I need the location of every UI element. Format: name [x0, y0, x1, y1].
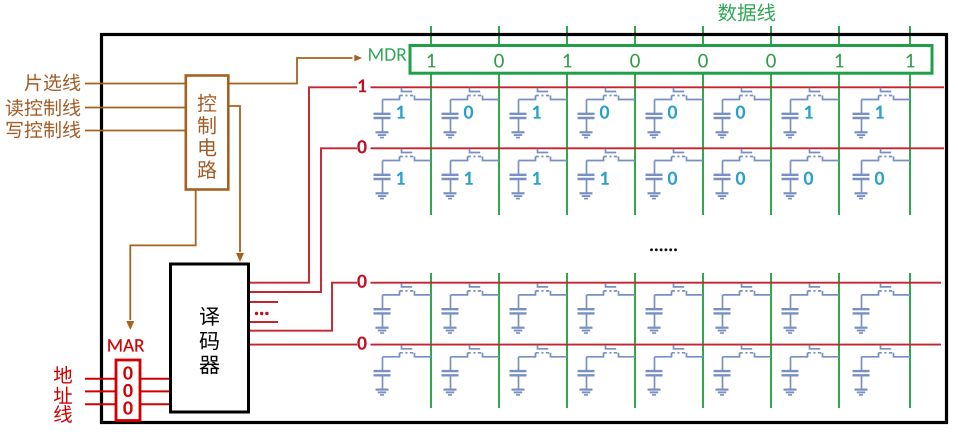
memory cell row3 col4 [578, 283, 636, 333]
stored bit = 0 [600, 105, 609, 118]
gate connection to word line [538, 283, 549, 287]
bit line / data line column 6 [770, 26, 772, 408]
ground [580, 131, 593, 133]
access transistor [723, 291, 740, 295]
word line row3 label 0 [357, 275, 366, 288]
storage capacitor [790, 161, 792, 175]
ground [855, 192, 868, 194]
access transistor [587, 291, 604, 295]
bit line / data line column 1 [430, 26, 432, 408]
gate connection to word line [742, 345, 753, 349]
access transistor [451, 96, 468, 100]
storage capacitor [450, 100, 452, 114]
ground [648, 327, 661, 329]
gate connection to word line [674, 88, 685, 92]
access transistor [587, 96, 604, 100]
decoder stub output a [249, 301, 279, 303]
memory cell row4 col4 [578, 345, 636, 395]
ground [444, 131, 457, 133]
gate connection to word line [881, 88, 892, 92]
memory cell row1 col2 = 0 [442, 88, 500, 138]
bit line / data line column 4 [634, 26, 636, 408]
storage capacitor [450, 295, 452, 309]
gate connection to word line [606, 283, 617, 287]
gate connection to word line [810, 149, 821, 153]
access transistor [451, 353, 468, 357]
label 写控制线 [6, 121, 80, 138]
ground [512, 131, 525, 133]
memory cell row3 col2 [442, 283, 500, 333]
storage capacitor [861, 295, 863, 309]
gate connection to word line [538, 88, 549, 92]
storage capacitor [790, 295, 792, 309]
storage capacitor [450, 357, 452, 371]
decoder text 译码器 [200, 307, 220, 374]
array row ellipsis …… [650, 248, 677, 251]
storage capacitor [654, 161, 656, 175]
label 地址线 (address lines) [54, 366, 72, 423]
storage capacitor [586, 295, 588, 309]
register MAR box [116, 360, 140, 421]
stored bit = 0 [804, 172, 813, 185]
chip select line (片选线) wire [85, 83, 186, 85]
ground [716, 192, 729, 194]
gate connection to word line [674, 149, 685, 153]
label 读控制线 [6, 99, 81, 117]
ground [716, 327, 729, 329]
memory cell row2 col5 = 0 [646, 149, 704, 199]
ground [444, 192, 457, 194]
memory cell row4 col7 [782, 345, 840, 395]
gate connection to word line [742, 283, 753, 287]
wire control->decoder with arrow [228, 106, 240, 252]
storage capacitor [586, 100, 588, 114]
gate connection to word line [538, 149, 549, 153]
access transistor [519, 157, 536, 161]
memory cell row4 col3 [510, 345, 568, 395]
memory cell row2 col2 = 1 [442, 149, 500, 199]
word line row1 (selected, =1) [249, 87, 945, 282]
access transistor [791, 291, 808, 295]
storage capacitor [518, 295, 520, 309]
storage capacitor [382, 100, 384, 114]
ground [580, 327, 593, 329]
storage capacitor [382, 161, 384, 175]
MAR contents 0 0 0 [123, 366, 132, 414]
gate connection to word line [402, 149, 413, 153]
gate connection to word line [402, 88, 413, 92]
ground [580, 192, 593, 194]
decoder stub output b [249, 321, 279, 323]
word line row1 label 1 [358, 79, 366, 92]
ground [648, 131, 661, 133]
ground [855, 131, 868, 133]
access transistor [655, 353, 672, 357]
storage capacitor [722, 100, 724, 114]
ground [784, 389, 797, 391]
memory cell row1 col5 = 0 [646, 88, 704, 138]
stored bit = 0 [736, 105, 745, 118]
read control line (读控制线) wire [85, 107, 186, 109]
access transistor [862, 353, 879, 357]
ground [716, 131, 729, 133]
stored bit = 1 [533, 172, 541, 185]
ground [444, 389, 457, 391]
ground [512, 389, 525, 391]
memory cell row1 col8 = 1 [853, 88, 911, 138]
control circuit box (控制电路) [186, 76, 229, 190]
memory cell row1 col6 = 0 [714, 88, 772, 138]
access transistor [862, 291, 879, 295]
gate connection to word line [810, 283, 821, 287]
bit line / data line column 2 [498, 26, 500, 408]
label 数据线 (data lines) [718, 3, 775, 21]
gate connection to word line [881, 345, 892, 349]
gate connection to word line [606, 149, 617, 153]
ground [784, 131, 797, 133]
memory cell row2 col1 = 1 [374, 149, 432, 199]
write control line (写控制线) wire [85, 130, 186, 132]
ground [855, 389, 868, 391]
memory cell row4 col5 [646, 345, 704, 395]
access transistor [383, 96, 400, 100]
access transistor [383, 353, 400, 357]
access transistor [791, 157, 808, 161]
memory cell row1 col1 = 1 [374, 88, 432, 138]
memory cell row2 col3 = 1 [510, 149, 568, 199]
memory cell row1 col7 = 1 [782, 88, 840, 138]
register MAR label [108, 339, 144, 351]
access transistor [519, 291, 536, 295]
storage capacitor [654, 357, 656, 371]
stored bit = 0 [668, 172, 677, 185]
storage capacitor [861, 100, 863, 114]
storage capacitor [722, 295, 724, 309]
stored bit = 0 [668, 105, 677, 118]
access transistor [862, 157, 879, 161]
stored bit = 1 [465, 172, 473, 185]
wire control->MAR with arrow [130, 190, 195, 321]
memory cell row3 col7 [782, 283, 840, 333]
storage capacitor [586, 161, 588, 175]
gate connection to word line [742, 88, 753, 92]
storage capacitor [450, 161, 452, 175]
access transistor [587, 353, 604, 357]
bit line / data line column 5 [702, 26, 704, 408]
access transistor [723, 157, 740, 161]
memory chip outer boundary [102, 35, 947, 423]
ground [648, 192, 661, 194]
storage capacitor [518, 357, 520, 371]
gate connection to word line [470, 88, 481, 92]
stored bit = 1 [397, 172, 405, 185]
memory cell row1 col4 = 0 [578, 88, 636, 138]
ground [376, 131, 389, 133]
access transistor [723, 353, 740, 357]
ground [855, 327, 868, 329]
memory cell row2 col8 = 0 [853, 149, 911, 199]
storage capacitor [382, 295, 384, 309]
access transistor [791, 96, 808, 100]
ground [784, 192, 797, 194]
memory cell row2 col6 = 0 [714, 149, 772, 199]
gate connection to word line [470, 345, 481, 349]
memory cell row4 col6 [714, 345, 772, 395]
stored bit = 1 [876, 106, 884, 119]
memory cell row4 col8 [853, 345, 911, 395]
label 片选线 [25, 74, 81, 92]
word line row2 (=0) [249, 148, 945, 292]
wire control->MDR with arrow [228, 58, 352, 84]
ground [444, 327, 457, 329]
ground [512, 327, 525, 329]
access transistor [723, 96, 740, 100]
memory cell row4 col2 [442, 345, 500, 395]
stored bit = 1 [805, 106, 813, 119]
gate connection to word line [402, 283, 413, 287]
storage capacitor [382, 357, 384, 371]
stored bit = 0 [736, 172, 745, 185]
storage capacitor [518, 161, 520, 175]
storage capacitor [518, 100, 520, 114]
word line row2 label 0 [357, 140, 366, 153]
access transistor [587, 157, 604, 161]
ground [376, 192, 389, 194]
memory cell row1 col3 = 1 [510, 88, 568, 138]
gate connection to word line [810, 345, 821, 349]
ground [512, 192, 525, 194]
stored bit = 0 [464, 105, 473, 118]
access transistor [655, 157, 672, 161]
gate connection to word line [606, 345, 617, 349]
ground [648, 389, 661, 391]
storage capacitor [654, 295, 656, 309]
ground [784, 327, 797, 329]
gate connection to word line [810, 88, 821, 92]
decoder outputs ellipsis dots [255, 312, 269, 315]
storage capacitor [790, 357, 792, 371]
bit line / data line column 8 [909, 26, 911, 408]
word line row3 (=0) [249, 283, 942, 331]
memory cell row2 col7 = 0 [782, 149, 840, 199]
stored bit = 1 [601, 172, 609, 185]
ground [716, 389, 729, 391]
access transistor [451, 291, 468, 295]
memory cell row2 col4 = 1 [578, 149, 636, 199]
access transistor [451, 157, 468, 161]
access transistor [383, 291, 400, 295]
storage capacitor [722, 357, 724, 371]
decoder box (译码器) [171, 264, 249, 412]
access transistor [519, 353, 536, 357]
gate connection to word line [881, 283, 892, 287]
stored bit = 1 [397, 106, 405, 119]
gate connection to word line [674, 283, 685, 287]
gate connection to word line [538, 345, 549, 349]
gate connection to word line [742, 149, 753, 153]
storage capacitor [861, 161, 863, 175]
ground [376, 327, 389, 329]
storage capacitor [861, 357, 863, 371]
access transistor [519, 96, 536, 100]
storage capacitor [586, 357, 588, 371]
address line bit wires [85, 379, 171, 405]
memory cell row3 col3 [510, 283, 568, 333]
stored bit = 0 [875, 172, 884, 185]
memory cell row3 col6 [714, 283, 772, 333]
access transistor [383, 157, 400, 161]
storage capacitor [654, 100, 656, 114]
control circuit text 控制电路 [198, 94, 217, 179]
gate connection to word line [470, 149, 481, 153]
storage capacitor [790, 100, 792, 114]
memory cell row4 col1 [374, 345, 432, 395]
access transistor [862, 96, 879, 100]
storage capacitor [722, 161, 724, 175]
ground [376, 389, 389, 391]
access transistor [655, 291, 672, 295]
access transistor [655, 96, 672, 100]
access transistor [791, 353, 808, 357]
bit line / data line column 7 [838, 26, 840, 408]
gate connection to word line [606, 88, 617, 92]
memory cell row3 col8 [853, 283, 911, 333]
gate connection to word line [470, 283, 481, 287]
gate connection to word line [881, 149, 892, 153]
gate connection to word line [674, 345, 685, 349]
word line row4 (=0) [249, 344, 942, 346]
bit line / data line column 3 [566, 26, 568, 408]
register MDR box [410, 46, 932, 74]
MDR label [369, 48, 406, 61]
ground [580, 389, 593, 391]
stored bit = 1 [533, 106, 541, 119]
gate connection to word line [402, 345, 413, 349]
memory cell row3 col5 [646, 283, 704, 333]
word line row4 label 0 [357, 336, 366, 349]
memory cell row3 col1 [374, 283, 432, 333]
MDR contents 1 0 1 0 0 0 1 1 [428, 54, 915, 68]
